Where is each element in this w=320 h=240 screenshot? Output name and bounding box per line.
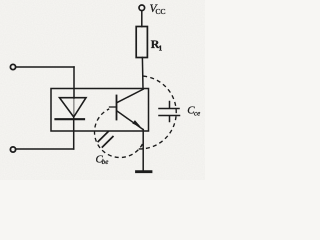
transistor Q1 base bar [116, 96, 118, 120]
svg-text:1: 1 [159, 44, 163, 53]
wire through diode [73, 98, 75, 117]
svg-text:be: be [102, 158, 109, 166]
capacitor Cce [159, 102, 180, 122]
emitter arrow [132, 120, 141, 127]
wire [16, 148, 74, 150]
capacitor Cbe [98, 132, 113, 147]
svg-text:ce: ce [194, 110, 200, 118]
wire [73, 117, 75, 149]
wire [73, 67, 75, 98]
diode LED [60, 98, 87, 117]
Vcc terminal [139, 5, 145, 11]
resistor R1 [136, 27, 147, 58]
terminal input bottom [10, 147, 15, 152]
transistor base stub [110, 106, 117, 108]
terminal input top [10, 64, 15, 69]
wire [141, 11, 143, 27]
svg-text:CC: CC [156, 7, 166, 16]
dashed circle Cce [136, 76, 177, 149]
wire [141, 58, 144, 89]
transistor collector [117, 89, 143, 102]
dashed circle Cbe [95, 109, 143, 158]
wire [142, 130, 144, 171]
transistor emitter [117, 111, 143, 130]
wire [16, 66, 74, 68]
ground [137, 170, 152, 173]
optocoupler box [51, 89, 149, 132]
